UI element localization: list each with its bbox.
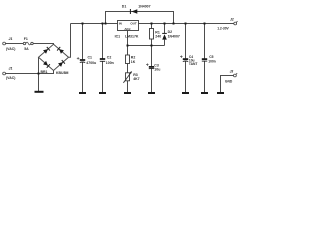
- svg-text:IC1: IC1: [115, 35, 121, 39]
- svg-text:GND: GND: [225, 79, 233, 83]
- svg-text:ADJ: ADJ: [124, 27, 130, 31]
- svg-text:C2: C2: [107, 55, 112, 59]
- svg-text:10u: 10u: [154, 68, 160, 72]
- svg-text:C1: C1: [88, 55, 93, 59]
- svg-text:240: 240: [155, 35, 161, 39]
- svg-text:J1: J1: [9, 67, 13, 71]
- svg-text:4K7: 4K7: [133, 77, 139, 81]
- svg-text:(VAC): (VAC): [6, 47, 15, 51]
- svg-text:J3: J3: [230, 70, 234, 74]
- svg-text:KBU8M: KBU8M: [56, 71, 69, 75]
- svg-text:1N4007: 1N4007: [138, 5, 150, 9]
- svg-text:J2: J2: [230, 17, 234, 21]
- svg-text:100n: 100n: [208, 59, 216, 63]
- svg-text:1.2-30V: 1.2-30V: [217, 27, 229, 31]
- svg-text:J1: J1: [9, 37, 13, 41]
- svg-text:LM317K: LM317K: [125, 35, 139, 39]
- svg-text:4700u: 4700u: [86, 61, 96, 65]
- svg-text:1N4007: 1N4007: [168, 34, 180, 38]
- svg-text:C5: C5: [209, 55, 213, 59]
- svg-text:100n: 100n: [106, 61, 114, 65]
- svg-text:D1: D1: [122, 5, 127, 9]
- svg-text:BR1: BR1: [41, 70, 48, 74]
- svg-text:1K: 1K: [131, 60, 136, 64]
- svg-text:(VAC): (VAC): [6, 76, 15, 80]
- svg-text:OUT: OUT: [130, 21, 137, 25]
- svg-text:TANT: TANT: [189, 62, 198, 66]
- svg-text:F1: F1: [24, 37, 28, 41]
- svg-text:IN: IN: [119, 21, 122, 25]
- svg-text:5A: 5A: [24, 47, 29, 51]
